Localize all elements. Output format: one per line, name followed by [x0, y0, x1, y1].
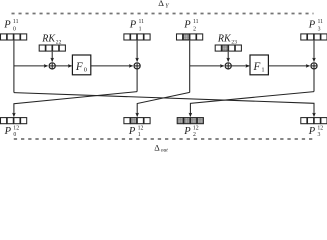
- bit squares P3^11: [301, 34, 327, 40]
- svg-text:Y: Y: [165, 3, 169, 10]
- F-box F1: [250, 55, 268, 75]
- bit squares P1^12 (2nd active): [124, 118, 150, 124]
- wire branch P1 vertical (into xor2): [136, 41, 138, 62]
- wire RK22 arrow into xor1: [51, 52, 53, 62]
- wire F1 to xor4: [268, 65, 309, 67]
- bit squares P2^11 (2nd active): [177, 34, 203, 40]
- delta_out dashed boundary line: [14, 138, 315, 140]
- wire xor2 output vertical: [136, 69, 138, 92]
- svg-text:P: P: [128, 126, 136, 137]
- svg-text:out: out: [161, 148, 169, 154]
- svg-text:12: 12: [193, 125, 199, 131]
- xor3: [225, 63, 231, 69]
- xor1: [49, 63, 55, 69]
- svg-text:1: 1: [138, 132, 141, 138]
- svg-text:12: 12: [13, 125, 19, 131]
- wire P2 tap to xor3: [190, 65, 224, 67]
- svg-text:F: F: [253, 61, 261, 73]
- label P0^11: [3, 19, 18, 32]
- wire shuffle B to a (P1 to pos0): [14, 92, 137, 117]
- label P3^11: [308, 19, 323, 32]
- svg-text:0: 0: [13, 26, 16, 32]
- wire branch P0 vertical: [13, 41, 15, 93]
- F-box F0: [72, 55, 90, 75]
- svg-text:P: P: [129, 19, 137, 30]
- svg-text:2: 2: [193, 26, 196, 32]
- bit squares RK22: [39, 45, 65, 51]
- wire xor1 to F0: [55, 65, 71, 67]
- label RK22: [41, 33, 61, 45]
- label P2^11: [183, 19, 198, 32]
- svg-text:F: F: [75, 61, 83, 73]
- label Delta_out: [154, 143, 168, 154]
- svg-text:23: 23: [231, 39, 237, 45]
- svg-text:22: 22: [56, 39, 62, 45]
- svg-text:RK: RK: [217, 33, 232, 44]
- wire F0 to xor2: [91, 65, 133, 67]
- label RK23: [217, 33, 237, 45]
- svg-text:RK: RK: [41, 33, 56, 44]
- label P3^12: [308, 125, 324, 138]
- svg-text:P: P: [183, 126, 191, 137]
- svg-text:2: 2: [193, 132, 196, 138]
- svg-text:12: 12: [138, 125, 144, 131]
- bit squares P2^12 (all active): [177, 118, 203, 124]
- svg-text:P: P: [183, 19, 191, 30]
- wire branch P3 vertical (into xor4): [313, 41, 315, 62]
- svg-text:3: 3: [318, 132, 321, 138]
- wire shuffle C to b (P2 to pos1): [137, 92, 190, 116]
- label P1^12: [128, 125, 144, 138]
- wire P0 tap to xor1: [14, 65, 48, 67]
- svg-text:P: P: [3, 19, 11, 30]
- svg-text:0: 0: [13, 132, 16, 138]
- svg-text:P: P: [308, 19, 316, 30]
- svg-text:0: 0: [84, 67, 87, 74]
- svg-text:11: 11: [139, 19, 145, 25]
- bit squares P1^11: [124, 34, 150, 40]
- wire xor3 to F1: [231, 65, 249, 67]
- delta_Y dashed boundary line: [12, 13, 314, 15]
- wire branch P2 vertical: [189, 41, 191, 93]
- label P2^12: [183, 125, 199, 138]
- svg-text:1: 1: [139, 26, 142, 32]
- svg-text:11: 11: [318, 19, 324, 25]
- svg-text:Δ: Δ: [154, 143, 160, 153]
- svg-text:3: 3: [318, 26, 321, 32]
- wire xor4 output vertical: [313, 69, 315, 92]
- bit squares P3^12: [301, 118, 327, 124]
- svg-text:P: P: [4, 126, 12, 137]
- svg-text:P: P: [308, 126, 316, 137]
- label P1^11: [129, 19, 144, 32]
- svg-text:12: 12: [317, 125, 323, 131]
- xor4: [311, 63, 317, 69]
- wire RK23 arrow into xor3: [227, 52, 229, 62]
- wire shuffle A to d (P0 to pos3): [14, 93, 314, 117]
- svg-text:11: 11: [193, 19, 199, 25]
- xor2: [134, 63, 140, 69]
- svg-text:Δ: Δ: [158, 0, 164, 8]
- svg-text:11: 11: [13, 19, 19, 25]
- label P0^12: [4, 125, 20, 138]
- label Delta_Y: [158, 0, 169, 10]
- svg-text:1: 1: [261, 67, 264, 74]
- bit squares P0^12: [1, 118, 27, 124]
- bit squares P0^11: [1, 34, 27, 40]
- wire shuffle D to c (P3 to pos2): [190, 92, 314, 117]
- bit squares RK23 (2nd active): [215, 45, 241, 51]
